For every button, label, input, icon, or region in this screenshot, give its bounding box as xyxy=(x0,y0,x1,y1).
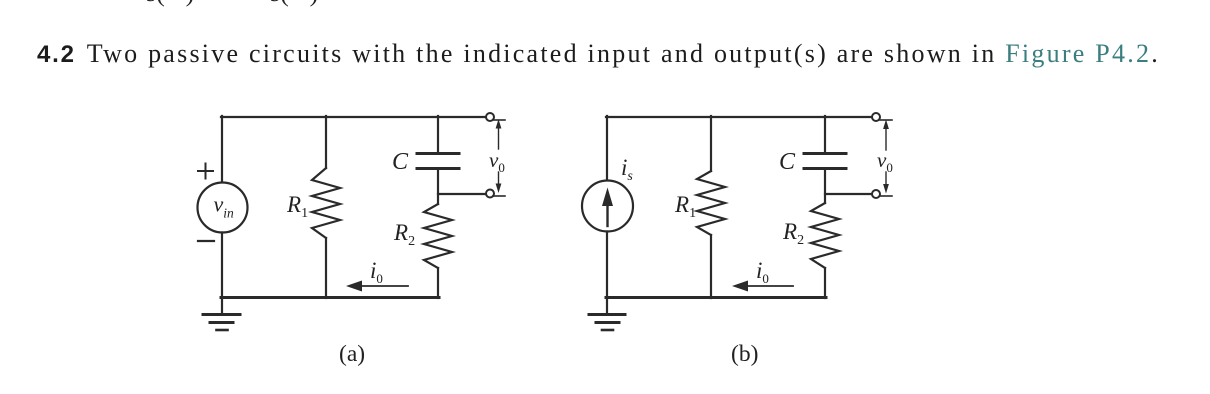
label io (a) xyxy=(370,258,383,286)
ground (b) bars xyxy=(589,315,625,323)
wire: C (a) top lead xyxy=(437,116,439,152)
label R1 (a) xyxy=(286,192,308,221)
label vo (b) xyxy=(877,148,893,175)
vo measure arrow lower (a) xyxy=(496,172,502,193)
svg-text:R1: R1 xyxy=(674,192,696,221)
wire: circuit (a) top rail xyxy=(221,116,486,118)
wire: C (b) bottom lead to R2 xyxy=(824,170,826,203)
wire: node to lower output terminal (a) xyxy=(438,193,486,195)
tick at bottom terminal (a) xyxy=(493,195,505,197)
svg-text:v0: v0 xyxy=(877,148,893,175)
wire: R1 (b) top lead xyxy=(710,116,712,171)
current arrow io (b) xyxy=(732,281,793,292)
svg-text:R1: R1 xyxy=(286,192,308,221)
wire: R1 (a) top lead xyxy=(325,116,327,168)
ground (a) stem xyxy=(221,297,223,313)
wire: C (b) top lead xyxy=(824,116,826,152)
wire: R1 (a) bottom lead xyxy=(325,238,327,298)
resistor R2 (a) zigzag xyxy=(424,204,452,268)
label R1 (b) xyxy=(674,192,696,221)
ground (b) stem xyxy=(606,297,608,313)
label vin xyxy=(214,192,235,221)
wire: circuit (b) left branch lower xyxy=(606,232,608,299)
tick at top terminal (a) xyxy=(493,119,505,121)
vo measure arrow lower (b) xyxy=(883,172,889,194)
label R2 (a) xyxy=(393,220,415,249)
svg-text:R2: R2 xyxy=(782,219,804,248)
caption (a) xyxy=(339,341,365,367)
heading problem 4.2 xyxy=(37,39,1160,69)
svg-text:is: is xyxy=(621,155,633,184)
wire: R1 (b) bottom lead xyxy=(710,235,712,298)
wire: C (a) bottom lead to R2 xyxy=(437,170,439,204)
capacitor C (a) top plate xyxy=(417,152,459,155)
caption (b) xyxy=(731,341,758,367)
tick at bottom terminal (b) xyxy=(880,195,892,197)
wire: circuit (b) top rail xyxy=(606,116,872,118)
tick at top terminal (b) xyxy=(880,119,892,121)
vo measure arrow upper (a) xyxy=(496,119,502,149)
resistor R1 (b) zigzag xyxy=(697,171,725,235)
wire: circuit (a) left branch lower xyxy=(221,233,223,299)
output terminal (b) bottom xyxy=(872,190,880,198)
wire: node to lower output terminal (b) xyxy=(825,193,872,195)
label C (a) xyxy=(392,149,409,175)
resistor R1 (a) zigzag xyxy=(312,168,340,238)
voltage source Vin circle xyxy=(198,183,248,233)
current source arrow xyxy=(602,188,613,227)
resistor R2 (b) zigzag xyxy=(811,203,839,268)
capacitor C (b) top plate xyxy=(804,152,846,155)
output terminal (b) top xyxy=(872,113,880,121)
output terminal (a) top xyxy=(486,113,494,121)
current arrow io (a) xyxy=(346,281,408,292)
wire: R2 (a) bottom lead xyxy=(437,268,439,298)
svg-text:C: C xyxy=(392,149,409,175)
svg-text:C: C xyxy=(779,149,796,175)
capacitor C (b) bottom plate xyxy=(804,167,846,170)
svg-text:(b): (b) xyxy=(731,341,758,367)
svg-text:(a): (a) xyxy=(339,341,365,367)
minus sign of Vin xyxy=(198,240,214,242)
svg-text:v0: v0 xyxy=(489,148,505,175)
label io (b) xyxy=(756,258,769,286)
label vo (a) xyxy=(489,148,505,175)
vo measure arrow upper (b) xyxy=(883,120,889,151)
cut-off text fragment left xyxy=(146,0,196,7)
plus sign of Vin xyxy=(198,164,213,179)
ground (a) bars xyxy=(203,315,240,323)
capacitor C (a) bottom plate xyxy=(417,167,459,170)
label C (b) xyxy=(779,149,796,175)
cut-off text fragment right xyxy=(270,0,320,7)
wire: R2 (b) bottom lead xyxy=(824,268,826,298)
svg-text:i0: i0 xyxy=(370,258,383,286)
wire: circuit (b) left branch upper xyxy=(606,116,608,181)
output terminal (a) bottom xyxy=(486,190,494,198)
svg-text:i0: i0 xyxy=(756,258,769,286)
wire: circuit (a) left branch upper xyxy=(221,116,223,183)
label R2 (b) xyxy=(782,219,804,248)
svg-text:R2: R2 xyxy=(393,220,415,249)
label is xyxy=(621,155,633,184)
wire: circuit (b) bottom rail xyxy=(606,296,826,299)
current source is circle xyxy=(582,181,633,232)
wire: circuit (a) bottom rail xyxy=(221,296,439,299)
